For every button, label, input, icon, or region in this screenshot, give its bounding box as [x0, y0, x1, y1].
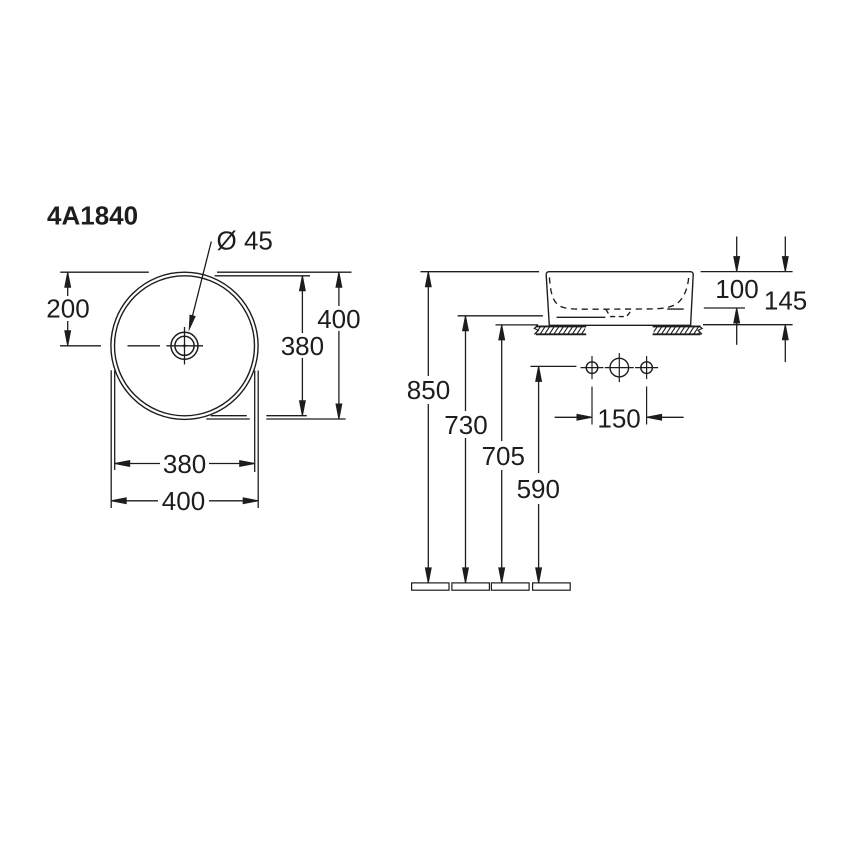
extension line bottom-right outer vertical	[257, 371, 259, 509]
tap hole right	[641, 362, 653, 374]
dimension 400 vertical top arrow	[336, 272, 342, 287]
extension line bottom-left inner vertical	[114, 370, 116, 470]
svg-text:100: 100	[715, 274, 758, 304]
drain dashed trapezoid	[606, 309, 633, 316]
dimension 730 line	[465, 316, 467, 411]
basin inner bowl dashed profile	[549, 277, 688, 309]
dimension 590 bottom arrow	[536, 568, 542, 583]
leader line to drain	[192, 242, 211, 318]
dimension 380 horizontal line	[115, 463, 160, 465]
dimension 200 top arrow	[65, 272, 71, 287]
dimension 400 horizontal line	[111, 500, 158, 502]
dimension 150 left arrow	[577, 414, 592, 420]
drain centerline vertical	[184, 327, 186, 365]
dimension 400 vertical line	[338, 272, 340, 306]
extension line bottom outer tangent left part	[206, 418, 250, 420]
bowl bottom solid edge right	[667, 308, 684, 310]
extension line bottom-left outer vertical	[110, 370, 112, 508]
extension line 730 level	[458, 315, 543, 317]
dimension 730 top arrow	[463, 316, 469, 331]
dimension 200 line	[67, 272, 69, 296]
extension line bowl bottom right (100)	[704, 307, 745, 309]
extension line left at centerline	[60, 345, 101, 347]
basin body outline	[546, 272, 693, 326]
basin inner rim circle	[115, 276, 255, 416]
dimension 380 vertical line	[301, 276, 303, 333]
dimension 850 top arrow	[425, 272, 431, 287]
dimension 590 line	[538, 366, 540, 473]
dimension 705 bottom arrow	[499, 568, 505, 583]
dimension 705 top arrow	[499, 325, 505, 340]
extension line countertop left (705)	[496, 324, 539, 326]
extension line bottom inner tangent right part	[266, 415, 306, 417]
dimension 145 bottom arrow	[782, 325, 788, 340]
dimension 380 vertical top arrow	[300, 276, 306, 291]
svg-text:Ø 45: Ø 45	[217, 225, 273, 255]
extension line countertop right (145)	[703, 324, 793, 326]
svg-text:145: 145	[764, 285, 807, 315]
svg-text:730: 730	[444, 410, 487, 440]
dimension 145 top arrow	[782, 257, 788, 272]
dimension 100 top arrow	[734, 257, 740, 272]
dimension 145 bottom arrow line	[784, 339, 786, 363]
floor tile 1	[412, 583, 449, 590]
drain hole inner circle	[175, 336, 194, 355]
dimension 100 top arrow line	[736, 237, 738, 259]
extension line tap hole level (590)	[530, 365, 576, 367]
extension line top outer tangent left part	[60, 271, 149, 273]
svg-text:380: 380	[163, 449, 206, 479]
extension line bottom outer tangent right part	[266, 418, 345, 420]
dimension 150 left line	[555, 416, 578, 418]
dimension 380 horizontal right arrow	[240, 461, 255, 467]
bowl bottom solid edge left	[557, 316, 606, 318]
tap hole center	[610, 358, 629, 377]
floor tile 4	[533, 583, 571, 590]
drain center dot	[183, 344, 186, 347]
extension line tap hole right vertical	[646, 387, 648, 425]
dimension 200 bottom arrow	[65, 331, 71, 346]
dimension 590 top arrow	[536, 366, 542, 381]
svg-text:400: 400	[317, 304, 360, 334]
leader arrowhead	[189, 315, 196, 332]
svg-text:705: 705	[482, 441, 525, 471]
dimension 100 bottom arrow	[734, 308, 740, 323]
svg-text:850: 850	[407, 375, 450, 405]
svg-text:400: 400	[162, 486, 205, 516]
dimension 150 right arrow	[647, 414, 662, 420]
svg-text:200: 200	[46, 294, 89, 324]
extension line top outer tangent right part	[217, 271, 352, 273]
dimension 730 bottom arrow	[463, 568, 469, 583]
svg-text:380: 380	[281, 331, 324, 361]
dimension 100 bottom arrow line	[736, 322, 738, 345]
svg-text:590: 590	[517, 474, 560, 504]
basin horizontal centerline dash	[128, 345, 161, 347]
tap hole left	[586, 362, 598, 374]
dimension 145 top arrow line	[784, 237, 786, 259]
dimension 150 right line	[661, 416, 684, 418]
extension line basin top left (850)	[421, 271, 540, 273]
dimension 380 vertical bottom arrow	[300, 401, 306, 416]
extension line top inner tangent	[215, 275, 310, 277]
basin outer rim circle	[111, 272, 258, 419]
dimension 400 horizontal left arrow	[111, 498, 126, 504]
dimension 400 horizontal right arrow	[243, 498, 258, 504]
dimension 400 vertical bottom arrow	[336, 404, 342, 419]
drain hole outer circle	[171, 332, 198, 359]
dimension 850 line	[427, 272, 429, 376]
extension line bottom-right inner vertical	[254, 371, 256, 473]
drain centerline horizontal	[167, 345, 204, 347]
dimension 850 bottom arrow	[425, 568, 431, 583]
svg-text:4A1840: 4A1840	[47, 201, 138, 231]
extension line bottom inner tangent left part	[211, 415, 247, 417]
dimension 705 line	[501, 325, 503, 441]
svg-text:150: 150	[597, 403, 640, 433]
dimension 380 horizontal left arrow	[115, 461, 130, 467]
floor tile 3	[491, 583, 529, 590]
extension line basin top right	[701, 271, 793, 273]
extension line tap hole left vertical	[591, 387, 593, 425]
floor tile 2	[452, 583, 490, 590]
